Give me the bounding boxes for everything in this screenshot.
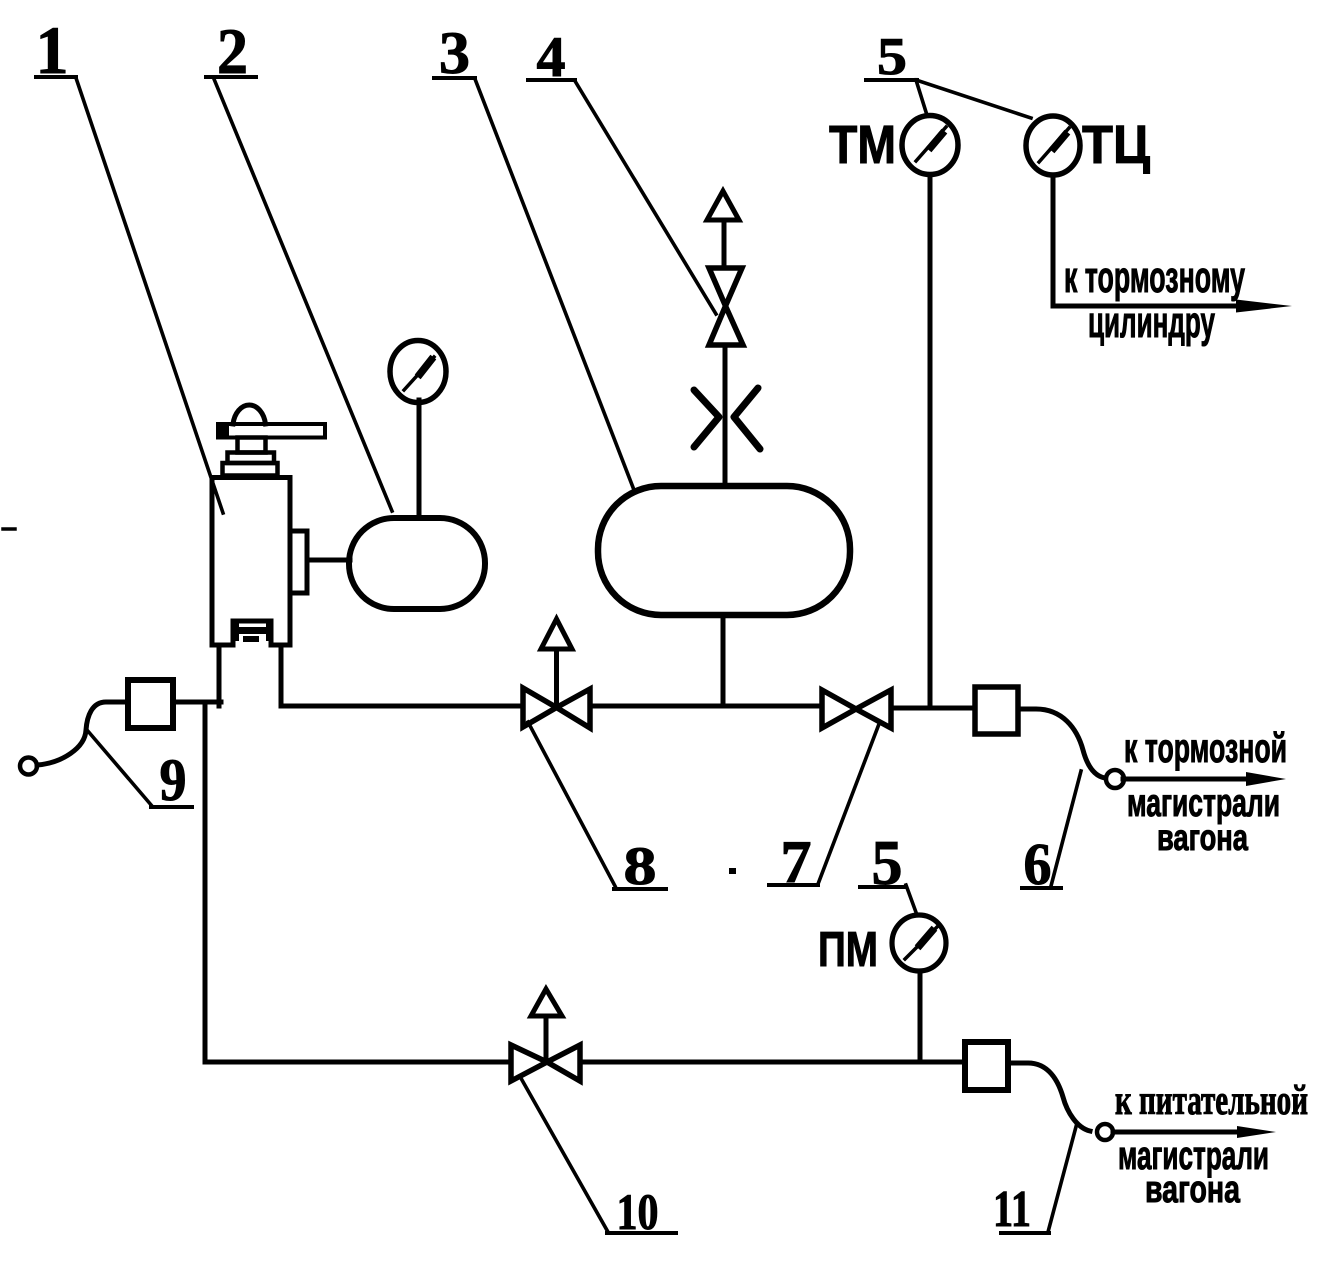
svg-text:к тормозной: к тормозной bbox=[1124, 725, 1287, 771]
stem bbox=[238, 438, 266, 453]
wire filter 9 to device bbox=[173, 700, 221, 705]
tank 3 (main reservoir) bbox=[598, 486, 850, 615]
hose right top with connector bbox=[1018, 709, 1124, 788]
label 7 bbox=[769, 724, 879, 895]
valve 7 bbox=[822, 690, 891, 728]
label 1 bbox=[36, 12, 224, 513]
stray dash left edge bbox=[3, 527, 15, 531]
vent arrow of valve 10 bbox=[531, 989, 562, 1062]
wire feed pipe left bbox=[205, 1060, 511, 1065]
wire valve 8 to valve 7 bbox=[590, 704, 822, 709]
text to brake line of car bbox=[1124, 725, 1287, 858]
quick-disconnect chevrons bbox=[694, 388, 760, 449]
hose right bottom with connector bbox=[1008, 1063, 1113, 1140]
wire device 1 to tank 2 bbox=[307, 558, 350, 563]
bottom fitting bbox=[234, 621, 239, 641]
svg-text:9: 9 bbox=[160, 747, 187, 813]
svg-text:ТМ: ТМ bbox=[829, 115, 896, 175]
side tab bbox=[290, 531, 307, 593]
label 9 bbox=[87, 730, 192, 813]
label 3 bbox=[434, 20, 634, 490]
label 5 top bbox=[866, 28, 1031, 118]
wire valve 7 to filter 6 bbox=[891, 706, 975, 711]
handle bar bbox=[218, 424, 325, 438]
hose left with connector bbox=[20, 702, 128, 775]
valve 10 bbox=[511, 1045, 580, 1081]
device 1: driver brake valve bbox=[212, 405, 325, 645]
svg-text:к тормозному: к тормозному bbox=[1064, 253, 1245, 302]
body bbox=[212, 478, 290, 646]
wire device 1 left foot bbox=[217, 645, 222, 706]
wire TC gauge to brake cylinder arrow bbox=[1053, 175, 1292, 313]
label 6 bbox=[1022, 771, 1081, 897]
label 8 bbox=[528, 722, 666, 896]
wire device 1 right foot bbox=[279, 645, 284, 706]
gauge PM bbox=[818, 915, 946, 977]
filter 11 bbox=[965, 1042, 1008, 1090]
arrow to brake line bbox=[1123, 772, 1286, 786]
gauge above tank 2 bbox=[390, 341, 446, 519]
wire valve 4 to tank 3 bbox=[723, 345, 728, 486]
filter 9 bbox=[128, 680, 173, 728]
svg-text:к питательной: к питательной bbox=[1115, 1078, 1308, 1124]
tank 2 (equalizing reservoir) bbox=[349, 518, 485, 609]
filter 6 bbox=[975, 687, 1018, 734]
svg-text:вагона: вагона bbox=[1157, 817, 1248, 858]
label 5 middle bbox=[860, 828, 917, 915]
wire PM gauge to feed pipe bbox=[918, 971, 923, 1062]
vent arrow of valve 4 bbox=[707, 191, 739, 268]
svg-text:цилиндру: цилиндру bbox=[1088, 298, 1215, 347]
wire left vertical to feed pipe bbox=[203, 704, 208, 1062]
svg-text:11: 11 bbox=[993, 1181, 1031, 1238]
wire main pipe right of device bbox=[281, 704, 523, 709]
label 10 bbox=[522, 1080, 676, 1241]
valve 4 (vertical bowtie) bbox=[709, 268, 743, 345]
arrow to feed line bbox=[1113, 1126, 1276, 1138]
label 11 bbox=[993, 1123, 1077, 1238]
label 4 bbox=[528, 26, 716, 314]
wire TM gauge to main pipe bbox=[928, 175, 933, 706]
label 2 bbox=[206, 16, 392, 511]
flange lower bbox=[223, 463, 278, 476]
gauge TM bbox=[829, 115, 958, 175]
text to brake cylinder bbox=[1064, 253, 1245, 347]
wire tank 3 to main pipe bbox=[721, 615, 726, 706]
gauge TC bbox=[1026, 115, 1151, 175]
svg-text:вагона: вагона bbox=[1145, 1169, 1241, 1211]
svg-text:ТЦ: ТЦ bbox=[1082, 115, 1151, 175]
valve 8 bbox=[523, 688, 590, 728]
vent arrow of valve 8 bbox=[541, 619, 572, 707]
stray dot bbox=[729, 868, 736, 874]
wire valve 10 to filter 11 bbox=[580, 1060, 965, 1065]
svg-text:5: 5 bbox=[877, 28, 907, 86]
dome knob bbox=[233, 405, 266, 424]
svg-text:ПМ: ПМ bbox=[818, 923, 878, 977]
text to feed line of car bbox=[1115, 1078, 1308, 1211]
flange upper bbox=[228, 453, 275, 464]
